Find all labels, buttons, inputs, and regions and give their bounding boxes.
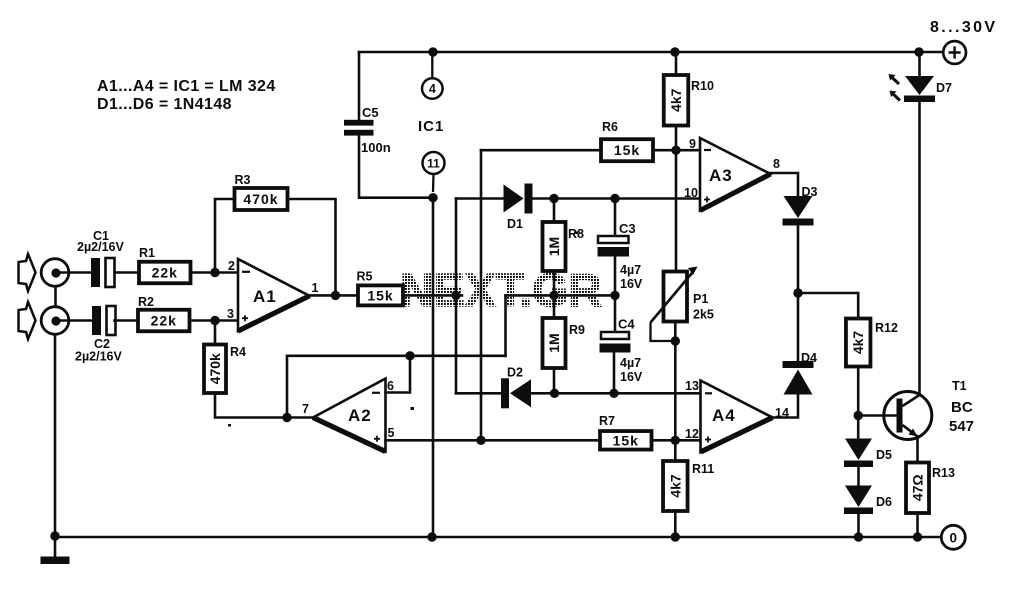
svg-text:8...30V: 8...30V [930,19,998,36]
node R13-ground [913,532,922,541]
svg-text:C3: C3 [619,221,636,236]
node rectifier input [451,291,460,300]
node input-arrow-2 [19,302,36,339]
svg-text:13: 13 [685,379,699,393]
svg-text:IC1: IC1 [418,118,444,135]
svg-text:A3: A3 [709,166,733,185]
svg-text:T1: T1 [952,379,967,393]
wire R3 to A1 output [288,199,336,295]
wire feedback rail down-link [504,295,507,355]
svg-text:470k: 470k [207,353,223,384]
capacitor C5 [344,120,374,136]
wire R12 to base node [857,367,860,416]
node pin6 junction [405,351,414,360]
resistor R8 [553,199,556,223]
wire node to D4 [797,293,800,361]
op-amp A4 [701,381,773,453]
node A2-pin7 junction [282,413,291,422]
wire C4 bottom [613,353,616,394]
svg-text:R7: R7 [599,414,615,428]
wire R7 to A4 pin12 [652,439,701,442]
wire D4 to A4 pin14 [773,395,799,418]
wire D1 cathode line to A3 pin10 [533,197,701,200]
terminal 0 [941,525,965,549]
transistor T1 [884,392,932,440]
node A1-pin2 junction [210,268,219,277]
svg-text:D2: D2 [507,366,523,380]
resistor R10 [675,52,678,75]
wire C3 bottom [614,257,617,296]
wire jack1-jack2 link [54,286,57,306]
svg-text:11: 11 [427,157,440,171]
wire C2 to R2 [115,319,140,322]
svg-text:R10: R10 [691,79,714,93]
wire pin9 node down to P1 [675,150,678,271]
diode D7 LED [904,76,935,102]
op-amp A1 [238,259,310,331]
wire R6 branch vertical [480,150,483,440]
node rail-R10 junction [670,47,679,56]
svg-text:R3: R3 [235,173,251,187]
node C3-C4 junction [610,291,619,300]
node rail-pin4 [428,47,437,56]
pin circle 4 [422,52,443,99]
svg-text:NEXT.GR: NEXT.GR [400,264,602,316]
svg-text:R1: R1 [139,246,155,260]
node C4 bottom [609,389,618,398]
wire D5 to D6 [857,467,860,486]
svg-text:1: 1 [312,281,319,295]
svg-text:D1...D6 = 1N4148: D1...D6 = 1N4148 [97,96,232,113]
resistor R13 [906,463,929,514]
svg-text:D7: D7 [936,81,952,95]
resistor R11 [663,461,688,511]
svg-text:22k: 22k [151,313,177,329]
capacitor C4 [614,295,617,332]
top supply rail [359,51,943,54]
svg-text:2µ2/16V: 2µ2/16V [75,350,122,364]
diode D6 [844,486,873,515]
node pin12 junction [671,436,680,445]
svg-text:10: 10 [684,186,698,200]
op-amp A3 [700,138,771,211]
wire base node to D5 [857,416,860,439]
wire R10 to pin9 node [675,126,678,151]
wire D2 cathode [456,392,501,395]
node D3-D4-R12 junction [793,288,802,297]
svg-text:0: 0 [950,530,958,545]
resistor R4 [204,345,226,394]
diode D1 [504,184,533,214]
svg-text:547: 547 [949,418,974,435]
node rail-D7 junction [914,47,923,56]
wire pin3-node down to R4 [214,321,217,345]
potentiometer P1 [651,267,698,342]
svg-text:R11: R11 [692,462,714,476]
LED arrows [889,74,901,101]
wire D2 anode line to A4 pin13 [532,392,701,395]
wire pin11 down to ground rail [432,198,435,537]
svg-text:C4: C4 [618,317,635,332]
svg-text:A2: A2 [348,406,372,425]
svg-text:470k: 470k [243,191,278,207]
node R8 top [549,194,558,203]
node pin11-ground [427,532,436,541]
node C3 top [610,194,619,203]
svg-text:R5: R5 [357,270,373,284]
wire D6 to ground rail [857,514,860,538]
svg-text:16V: 16V [620,277,643,291]
node pin9-R10 junction [671,146,680,155]
wire pin7 up and across to feedback rail [287,356,506,418]
wire D7 to T1 collector [918,103,921,396]
wire R6 to A3 pin9 [653,149,700,152]
wire node to R12 [798,293,858,319]
wire C5 bottom to pin11 node [359,136,433,198]
ground rail [55,536,941,539]
capacitor C3 [614,199,617,237]
svg-text:4µ7: 4µ7 [620,263,641,277]
wire T1 emitter to R13 [916,437,919,463]
svg-text:3: 3 [227,307,234,321]
svg-text:1M: 1M [546,333,562,352]
svg-text:15k: 15k [613,432,639,448]
svg-text:A1...A4 = IC1 = LM 324: A1...A4 = IC1 = LM 324 [97,78,276,95]
wire A3 pin8 to D3 [771,173,799,196]
wire pin2-node up to R3 [215,199,235,273]
svg-text:15k: 15k [367,287,393,303]
wire D3 to node [797,226,800,294]
wire rectifier vertical link [455,199,458,394]
svg-text:R12: R12 [875,321,898,335]
svg-text:9: 9 [689,137,696,151]
node input-arrow-1 [19,254,36,291]
node pin11 junction [428,193,437,202]
wire base node to T1 [858,414,896,417]
svg-text:4µ7: 4µ7 [620,356,641,370]
wire C5 top to supply rail [358,52,361,120]
wire D1 anode [456,197,504,200]
wire A2 pin5 line to R7 [386,439,601,442]
node base junction [854,411,863,420]
supply terminal + [943,41,966,64]
svg-text:47Ω: 47Ω [910,474,926,501]
svg-text:4: 4 [429,82,436,96]
wire R13 to ground rail [916,513,919,537]
svg-text:D1: D1 [507,217,523,231]
op-amp A2 [313,379,386,452]
node A1-pin3 junction [210,316,219,325]
capacitor C2 [92,306,116,335]
svg-text:D5: D5 [876,448,892,462]
svg-text:A4: A4 [712,406,736,425]
wire R5 to D1/D2 junction [403,294,462,297]
pin circle 11 [423,152,445,192]
wire R1 to A1 pin2 [191,271,239,274]
svg-text:R13: R13 [932,466,955,480]
svg-text:4k7: 4k7 [850,331,866,355]
wire R4 to A2 pin7 [215,393,313,418]
node P1 bottom junction [671,336,680,345]
node D6-ground [854,532,863,541]
wire pin12 node to R11 [674,440,677,461]
wire A1 output to R5 [310,294,359,297]
svg-text:C5: C5 [362,105,379,120]
svg-text:22k: 22k [152,265,178,281]
svg-text:R6: R6 [602,120,618,134]
svg-text:P1: P1 [693,292,708,306]
svg-text:A1: A1 [253,287,277,306]
svg-text:8: 8 [773,157,780,171]
svg-text:2: 2 [228,259,235,273]
wire R11 to ground rail [674,511,677,537]
node R8-R9 junction [549,291,558,300]
node R3-feedback junction [331,291,340,300]
svg-text:5: 5 [388,426,395,440]
resistor R12 [846,319,871,367]
ground symbol [41,536,70,564]
diode D5 [844,439,873,468]
svg-text:100n: 100n [361,140,391,155]
svg-text:2k5: 2k5 [693,308,714,322]
wire jack2 to ground rail [54,334,57,537]
wire R9 bottom [553,368,556,393]
svg-text:12: 12 [685,427,699,441]
svg-text:R4: R4 [230,345,246,359]
node ground-left [50,531,59,540]
wire jack1 to C1 [56,271,91,274]
resistor R9 [553,295,556,318]
wire rail to D7 [918,52,921,76]
wire A2 pin6 stub [386,356,411,393]
wire jack2 to C2 [56,319,92,322]
svg-text:1M: 1M [546,237,562,256]
wire R2 to A1 pin3 [190,319,239,322]
node input-jack-2 [41,307,69,335]
svg-text:R9: R9 [569,323,585,337]
wire R8 bottom [553,271,556,295]
svg-text:16V: 16V [620,370,643,384]
node R9 bottom [550,389,559,398]
svg-text:BC: BC [951,399,973,416]
svg-text:7: 7 [302,402,309,416]
node pin5-R6 junction [476,436,485,445]
svg-text:D6: D6 [876,495,892,509]
wire C1 to R1 [115,271,141,274]
svg-text:4k7: 4k7 [668,88,684,112]
svg-text:4k7: 4k7 [667,474,683,498]
wire center line [506,294,616,297]
svg-text:R2: R2 [138,295,154,309]
node input-jack-1 [41,259,69,287]
wire P1 to pin12 node [674,322,677,441]
svg-text:15k: 15k [614,142,640,158]
svg-text:2µ2/16V: 2µ2/16V [77,240,124,254]
capacitor C1 [91,258,115,287]
node scan specks [228,232,689,427]
node R11-ground [671,532,680,541]
svg-text:6: 6 [387,379,394,393]
